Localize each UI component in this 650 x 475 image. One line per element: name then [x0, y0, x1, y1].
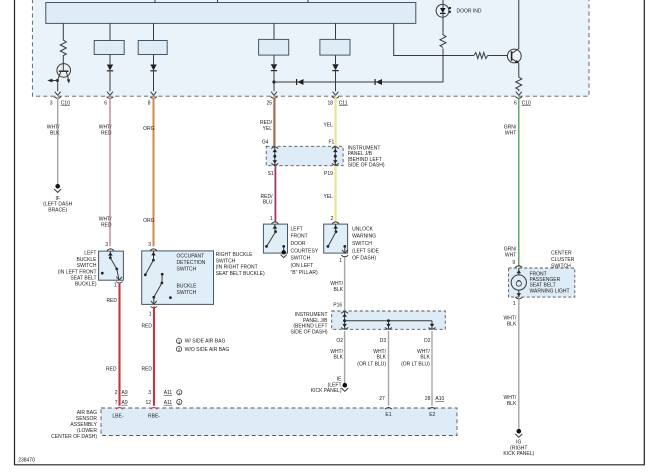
node label LBE- — [112, 413, 123, 419]
pin label 1 unlock — [339, 258, 342, 264]
svg-text:BLK: BLK — [507, 321, 517, 327]
svg-text:BRACE): BRACE) — [48, 208, 67, 214]
svg-text:C10: C10 — [61, 100, 70, 106]
wire bus to relay box 2 — [153, 23, 155, 40]
svg-text:BUCKLE): BUCKLE) — [75, 282, 97, 288]
air bag sensor assembly box — [101, 408, 457, 436]
pin label 27 — [379, 396, 385, 402]
ground IF — [54, 184, 61, 192]
svg-text:1: 1 — [339, 258, 342, 264]
wire WHT/BLK D3 to E1 — [388, 331, 390, 406]
svg-text:LBE-: LBE- — [112, 413, 123, 419]
svg-text:YEL: YEL — [323, 123, 333, 129]
label UNLOCK WARNING SWITCH — [352, 226, 380, 261]
svg-text:BLK: BLK — [420, 355, 430, 361]
diode D3a — [271, 64, 277, 70]
label INSTRUMENT PANEL J/B 2 — [291, 312, 329, 335]
ground IE — [341, 383, 348, 391]
resistor R2 — [440, 33, 446, 48]
wire WHT/RED pin6 to left buckle switch — [109, 98, 111, 247]
svg-text:BLK: BLK — [50, 130, 60, 136]
svg-text:D3: D3 — [380, 338, 387, 344]
label INSTRUMENT PANEL J/B 1 — [348, 145, 385, 168]
connector arc RBE entry — [151, 408, 158, 410]
connector arc unlock entry — [332, 222, 339, 224]
svg-text:(OR LT BLU): (OR LT BLU) — [357, 362, 386, 368]
svg-text:3: 3 — [105, 242, 108, 248]
connector arc warning light entry — [515, 266, 522, 268]
horizontal diode bus wire — [274, 48, 443, 82]
resistor R1 — [60, 38, 66, 58]
instrument panel J/B box 1 — [266, 146, 343, 165]
label WHT/BLK left — [47, 125, 60, 137]
wire diode D4a to pin 18 — [335, 71, 337, 92]
svg-text:CENTER: CENTER — [551, 251, 572, 257]
relay box 3 — [259, 39, 289, 55]
junction node on Q1 emitter — [56, 79, 59, 82]
pin labels 2 A9 / 7 A9 — [115, 390, 128, 406]
wire WHT/BLK warning light to ground IG — [518, 299, 520, 430]
svg-text:BUCKLE: BUCKLE — [177, 283, 198, 289]
wire diode D2a to pin 8 — [153, 71, 155, 91]
svg-text:28: 28 — [425, 396, 431, 402]
svg-text:BLK: BLK — [334, 355, 344, 361]
pin 8 connector arrow — [150, 92, 157, 99]
svg-text:(IN RIGHT FRONT: (IN RIGHT FRONT — [216, 265, 258, 271]
connector arc left buckle exit — [116, 281, 123, 283]
label CENTER CLUSTER SWITCH — [551, 251, 575, 270]
label WHT/BLK D3 — [357, 349, 386, 368]
svg-text:DOOR IND: DOOR IND — [457, 8, 482, 14]
pin labels 3 A11 / 12 A11 — [145, 390, 172, 406]
svg-text:KICK PANEL): KICK PANEL) — [311, 388, 342, 394]
label IG (RIGHT KICK PANEL) — [503, 440, 534, 458]
courtesy switch internals — [265, 224, 287, 258]
LED DOOR IND — [436, 0, 451, 17]
relay box 4 — [320, 39, 350, 55]
svg-text:DETECTION: DETECTION — [177, 260, 206, 266]
note W/ SIDE AIR BAG — [176, 338, 225, 344]
svg-text:6: 6 — [514, 100, 517, 106]
svg-text:OCCUPANT: OCCUPANT — [177, 254, 205, 260]
svg-text:D2: D2 — [424, 338, 431, 344]
svg-text:1: 1 — [114, 283, 117, 289]
svg-text:RED: RED — [106, 367, 117, 373]
wire relay1 to diode D1 — [109, 55, 111, 65]
svg-text:FRONT: FRONT — [291, 234, 308, 240]
connector arc P16 entry — [341, 312, 348, 314]
connector arc LBE entry — [116, 408, 123, 410]
label LEFT FRONT DOOR COURTESY SWITCH — [291, 226, 319, 276]
pin label 25 — [266, 100, 272, 106]
unlock warning switch box — [324, 224, 348, 253]
svg-text:1: 1 — [149, 312, 152, 318]
pin label S1 — [268, 171, 274, 177]
svg-text:27: 27 — [379, 396, 385, 402]
wire resistor R3 to Q2 — [490, 55, 508, 57]
connector arc unlock exit — [341, 255, 348, 257]
resistor R4 — [516, 76, 522, 92]
svg-text:SWITCH: SWITCH — [216, 258, 236, 264]
label ORG upper — [143, 126, 155, 132]
svg-text:ORG: ORG — [143, 126, 155, 132]
svg-text:2: 2 — [115, 390, 118, 396]
wire diode D1 to pin 6 — [109, 71, 111, 91]
pin label F1 — [328, 140, 334, 146]
svg-text:SIDE OF DASH): SIDE OF DASH) — [348, 163, 385, 169]
svg-text:RIGHT BUCKLE: RIGHT BUCKLE — [216, 252, 254, 258]
label WHT/BLK right upper — [504, 316, 517, 328]
pin label 2 unlock — [331, 216, 334, 222]
svg-text:WHT: WHT — [505, 252, 516, 258]
svg-text:DOOR: DOOR — [291, 241, 306, 247]
label AIR BAG SENSOR ASSEMBLY — [51, 410, 97, 440]
pin label 1 courtesy — [270, 216, 273, 222]
svg-text:(IN LEFT FRONT: (IN LEFT FRONT — [58, 269, 97, 275]
diode D4a — [332, 64, 338, 70]
wire relay2 to diode D2a — [153, 55, 155, 65]
connector arc E1 entry — [385, 408, 392, 410]
wire ORG pin8 to occupant switch — [153, 98, 155, 247]
svg-text:G4: G4 — [262, 140, 269, 146]
svg-text:C11: C11 — [339, 100, 348, 106]
unlock switch internals — [327, 224, 348, 253]
label FRONT PASSENGER SEAT BELT WARNING LIGHT — [530, 271, 570, 294]
diode D1 — [107, 65, 113, 71]
pin label 3 C10 — [50, 100, 70, 106]
svg-text:A9: A9 — [122, 390, 128, 396]
lamp front passenger seat belt warning light — [511, 268, 526, 297]
pin 6 connector arrow — [107, 92, 114, 99]
wire GRN/WHT pin6 C10 to warning light — [518, 98, 520, 266]
svg-text:18: 18 — [327, 100, 333, 106]
ECU dashed container box — [32, 0, 589, 96]
svg-text:P16: P16 — [333, 302, 342, 308]
pin label 18 C11 — [327, 100, 347, 106]
resistor R3 horizontal — [474, 53, 490, 59]
svg-text:RED: RED — [106, 298, 117, 304]
wire bus to relay box 3 — [273, 23, 275, 39]
wire bus to relay box 4 — [335, 23, 337, 39]
wire WHT/BLK D2 to E2 — [431, 331, 433, 406]
connector arc occupant entry — [150, 249, 157, 251]
svg-text:C10: C10 — [522, 100, 531, 106]
svg-text:RED: RED — [101, 130, 112, 136]
pin label O2 — [336, 338, 343, 344]
label ORG lower — [143, 218, 155, 224]
svg-text:UNLOCK: UNLOCK — [352, 226, 374, 232]
node label RBE- — [148, 413, 160, 419]
node label E1 — [385, 412, 391, 418]
connector arc warning light exit — [515, 297, 522, 299]
occupant detection switch box — [142, 251, 214, 305]
wire WHT/BLK pin3 to ground IF — [57, 98, 59, 185]
node label E2 — [429, 412, 435, 418]
svg-text:YEL: YEL — [323, 194, 333, 200]
center cluster switch warning light box — [509, 268, 575, 297]
diode D6 left-pointing — [375, 79, 382, 85]
pin label 1 warning light — [513, 301, 516, 307]
svg-text:YEL: YEL — [263, 126, 273, 132]
pin label P16 — [333, 302, 342, 308]
svg-text:12: 12 — [145, 400, 151, 406]
svg-text:SWITCH: SWITCH — [551, 263, 571, 269]
label RED left upper — [106, 298, 117, 304]
pin label 3 left buckle — [105, 242, 108, 248]
internal bus box — [46, 3, 416, 24]
svg-text:O2: O2 — [336, 338, 343, 344]
svg-text:RBE-: RBE- — [148, 413, 160, 419]
svg-text:1: 1 — [513, 301, 516, 307]
wire RED occupant to RBE — [153, 307, 155, 406]
svg-text:2: 2 — [331, 216, 334, 222]
wire relay3 to diode D3a — [273, 55, 275, 64]
svg-text:W/ SIDE AIR BAG: W/ SIDE AIR BAG — [185, 339, 226, 345]
transistor Q1 — [57, 64, 71, 84]
svg-text:LEFT: LEFT — [84, 251, 96, 257]
wire WHT/BLK unlock to P16 — [344, 258, 346, 311]
svg-text:1: 1 — [270, 216, 273, 222]
label IE (LEFT KICK PANEL) — [311, 377, 342, 395]
connector arcs F1 entry — [332, 147, 339, 165]
wire stub above bus box 3 — [307, 0, 309, 3]
pin label G4 — [262, 140, 269, 146]
transistor Q2 — [507, 49, 521, 64]
wire RED/BLU S1 to courtesy switch — [274, 166, 276, 222]
svg-text:RED: RED — [141, 323, 152, 329]
svg-text:S1: S1 — [268, 171, 274, 177]
J/B1 internal wire right — [333, 146, 337, 165]
label RED/BLU — [261, 194, 274, 206]
wire Q1 node to pin 3 — [57, 81, 59, 92]
pin label 1 left buckle — [114, 283, 117, 289]
pin label 6 C10 right — [514, 100, 531, 106]
svg-text:25: 25 — [266, 100, 272, 106]
label GRN/WHT upper — [504, 125, 517, 137]
label WHT/BLK middle — [330, 281, 343, 293]
svg-text:RED: RED — [141, 367, 152, 373]
wire stub above bus box 2 — [217, 0, 219, 3]
svg-text:CENTER OF DASH): CENTER OF DASH) — [51, 434, 97, 440]
svg-text:BLK: BLK — [507, 401, 517, 407]
svg-text:SWITCH: SWITCH — [177, 266, 197, 272]
svg-text:SIDE OF DASH): SIDE OF DASH) — [291, 329, 328, 335]
J/B2 internal bus — [342, 311, 434, 329]
pin 18 connector arrow — [332, 92, 339, 99]
svg-text:(OR LT BLU): (OR LT BLU) — [401, 362, 430, 368]
svg-text:8: 8 — [148, 100, 151, 106]
svg-text:BLK: BLK — [334, 287, 344, 293]
collector wire Q2 to top — [518, 0, 520, 49]
label WHT/BLK O2 — [330, 349, 343, 361]
pin label 9 — [512, 260, 515, 266]
svg-text:SWITCH: SWITCH — [177, 290, 197, 296]
label RIGHT BUCKLE SWITCH — [216, 252, 265, 277]
pin label 6 — [104, 100, 107, 106]
svg-text:(LEFT SIDE: (LEFT SIDE — [352, 248, 380, 254]
pin label 1 occupant — [149, 312, 152, 318]
svg-text:3: 3 — [148, 242, 151, 248]
buckle switch internals (occupant box) — [151, 273, 172, 304]
label WHT/BLK D2 — [401, 349, 430, 368]
svg-text:6: 6 — [104, 100, 107, 106]
label WHT/RED lower — [99, 217, 112, 229]
drawing number 238470 — [18, 457, 35, 463]
wire resistor to transistor Q1 — [62, 58, 64, 64]
instrument panel J/B box 2 — [332, 311, 446, 329]
junction node on wire 25 — [272, 80, 275, 83]
wire diode D3a to pin 25 — [273, 71, 275, 92]
pin label D2 — [424, 338, 431, 344]
svg-text:"B" PILLAR): "B" PILLAR) — [291, 270, 319, 276]
wire relay4 to diode D4a — [335, 55, 337, 64]
svg-text:BUCKLE: BUCKLE — [76, 257, 97, 263]
left buckle switch box — [99, 251, 124, 280]
svg-text:A11: A11 — [164, 390, 173, 396]
svg-text:SEAT BELT: SEAT BELT — [70, 276, 96, 282]
label GRN/WHT lower — [504, 247, 517, 259]
svg-text:238470: 238470 — [18, 457, 35, 463]
J/B1 internal wire left — [273, 146, 277, 165]
wire bus to relay box 1 — [109, 23, 111, 40]
label RED/YEL — [260, 120, 273, 132]
svg-text:A10: A10 — [435, 396, 444, 402]
connector arc left buckle entry — [107, 249, 114, 251]
svg-text:P19: P19 — [324, 171, 333, 177]
pin label 3 occupant — [148, 242, 151, 248]
wire LED to resistor R2 — [442, 17, 444, 33]
label YEL upper — [323, 123, 333, 129]
ground IG — [515, 429, 522, 437]
svg-text:COURTESY: COURTESY — [291, 248, 319, 254]
wire YEL pin18 to F1 — [334, 98, 336, 146]
svg-text:A11: A11 — [164, 400, 173, 406]
arrow to left from Q1 node — [47, 79, 57, 83]
label WHT/RED upper — [99, 125, 112, 137]
label YEL lower — [323, 194, 333, 200]
svg-text:SWITCH: SWITCH — [352, 241, 372, 247]
label RED right upper — [141, 323, 152, 329]
svg-text:SWITCH: SWITCH — [291, 256, 311, 262]
svg-text:7: 7 — [115, 400, 118, 406]
pin label 8 — [148, 100, 151, 106]
label LEFT BUCKLE SWITCH — [58, 251, 97, 288]
svg-text:A9: A9 — [122, 400, 128, 406]
svg-text:9: 9 — [512, 260, 515, 266]
wire bus to resistor R1 — [62, 23, 64, 38]
pin label P19 — [324, 171, 333, 177]
wire YEL P19 to unlock switch — [334, 166, 336, 222]
label WHT/BLK right lower — [504, 395, 517, 407]
relay box 1 — [94, 41, 124, 55]
svg-text:3: 3 — [148, 390, 151, 396]
svg-text:BLK: BLK — [377, 355, 387, 361]
note W/O SIDE AIR BAG — [176, 347, 229, 353]
svg-text:(ON LEFT: (ON LEFT — [291, 263, 314, 269]
pin 6 C10 connector arrow right — [515, 92, 522, 99]
connector arc courtesy entry — [272, 222, 279, 224]
label BUCKLE SWITCH — [177, 283, 198, 295]
svg-text:BLU: BLU — [263, 200, 273, 206]
svg-text:WHT: WHT — [505, 130, 516, 136]
left buckle switch internals — [101, 251, 122, 280]
wire WHT/BLK O2 to ground IE — [344, 331, 346, 383]
svg-text:E1: E1 — [385, 412, 391, 418]
svg-text:RED: RED — [101, 222, 112, 228]
diode D2a — [150, 65, 156, 71]
pin 25 connector arrow — [271, 92, 278, 99]
left front door courtesy switch box — [263, 224, 287, 253]
relay box 2 — [138, 41, 167, 55]
wire stub above bus box 1 — [154, 0, 156, 3]
svg-text:KICK PANEL): KICK PANEL) — [503, 451, 534, 457]
connector arc occupant exit — [150, 306, 157, 308]
svg-text:E2: E2 — [429, 412, 435, 418]
connector arcs G4 entry — [271, 147, 278, 165]
emitter wire Q2 to resistor R4 — [518, 63, 520, 75]
svg-text:OF DASH): OF DASH) — [352, 256, 376, 262]
svg-text:ORG: ORG — [143, 218, 155, 224]
pin label 28 A10 — [425, 396, 445, 402]
pin 3 connector arrow — [54, 92, 61, 99]
svg-text:WARNING LIGHT: WARNING LIGHT — [530, 288, 570, 294]
svg-text:SEAT BELT BUCKLE): SEAT BELT BUCKLE) — [216, 271, 265, 277]
label RED right lower — [141, 367, 152, 373]
circled note 1 at A11 — [177, 390, 182, 396]
svg-text:3: 3 — [50, 100, 53, 106]
label DOOR IND — [457, 8, 482, 14]
connector arcs J/B2 exits — [341, 328, 435, 330]
wire RED left buckle to LBE — [118, 283, 120, 406]
svg-text:SWITCH: SWITCH — [77, 263, 97, 269]
label IF (LEFT DASH BRACE) — [43, 196, 72, 214]
label OCCUPANT DETECTION SWITCH — [177, 254, 206, 273]
svg-text:LEFT: LEFT — [291, 226, 303, 232]
connector arc E2 entry — [429, 408, 436, 410]
svg-text:W/O SIDE AIR BAG: W/O SIDE AIR BAG — [185, 347, 230, 353]
label RED left lower — [106, 367, 117, 373]
svg-text:CLUSTER: CLUSTER — [551, 257, 575, 263]
diode D5 left-pointing — [297, 79, 304, 85]
svg-text:F1: F1 — [328, 140, 334, 146]
pin label D3 — [380, 338, 387, 344]
circled note 2 at A11 — [177, 399, 182, 405]
occupant detection switch internals — [144, 251, 156, 276]
svg-text:WARNING: WARNING — [352, 234, 376, 240]
wire bus to Q2 base line — [394, 23, 474, 55]
wire RED/YEL pin25 to G4 — [273, 98, 275, 146]
